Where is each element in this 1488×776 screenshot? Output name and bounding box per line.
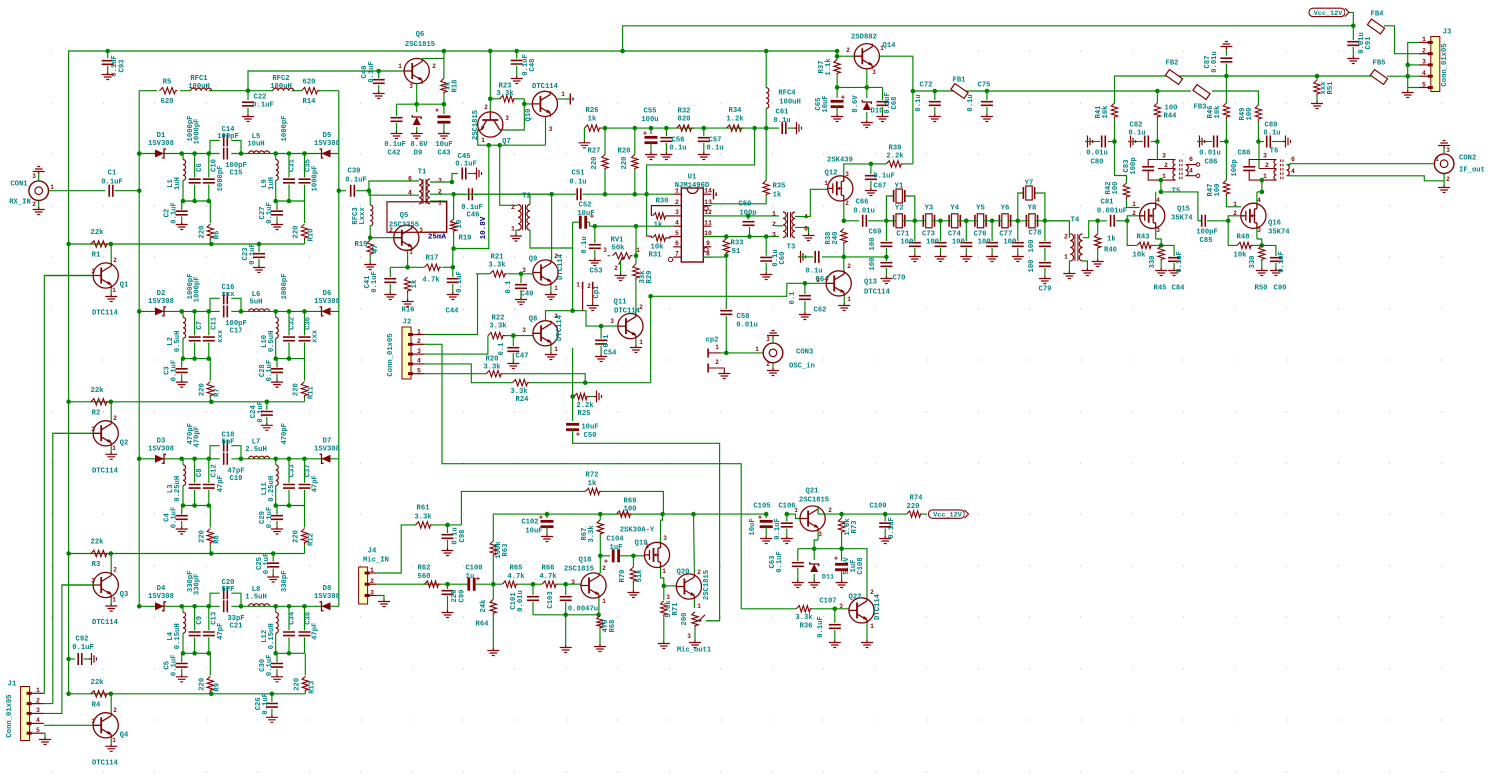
svg-text:1: 1 xyxy=(880,45,884,52)
svg-text:DTC114: DTC114 xyxy=(614,308,641,316)
capacitor C22 xyxy=(247,91,249,100)
capacitor C76 xyxy=(991,221,993,241)
svg-text:R25: R25 xyxy=(578,410,591,418)
svg-text:FB1: FB1 xyxy=(953,77,967,85)
capacitor C85 xyxy=(1198,220,1202,222)
svg-text:3: 3 xyxy=(687,633,691,640)
svg-text:3: 3 xyxy=(370,589,374,596)
ground C4 xyxy=(176,527,188,535)
svg-text:xxx: xxx xyxy=(217,329,225,343)
svg-text:R43: R43 xyxy=(1137,234,1150,242)
wire Q5 emitter xyxy=(407,250,409,267)
svg-text:3: 3 xyxy=(409,83,413,90)
capacitor C75 xyxy=(986,91,988,100)
resistor R49 xyxy=(1255,105,1261,121)
svg-text:R66: R66 xyxy=(542,565,555,573)
svg-text:1: 1 xyxy=(36,687,40,694)
wire T1 pin2 row xyxy=(430,193,465,195)
svg-text:2.2k: 2.2k xyxy=(576,402,594,410)
resistor R26 xyxy=(583,128,585,140)
svg-text:+: + xyxy=(435,108,439,116)
svg-text:100: 100 xyxy=(1003,239,1016,247)
svg-text:100: 100 xyxy=(900,239,913,247)
svg-text:Q9: Q9 xyxy=(529,256,538,264)
wire collector Q3 xyxy=(110,554,112,573)
svg-text:0.1uF: 0.1uF xyxy=(171,202,179,224)
svg-text:Q8: Q8 xyxy=(529,316,538,324)
svg-text:220: 220 xyxy=(198,226,206,239)
ground C41 xyxy=(384,292,396,300)
capacitor C9 xyxy=(194,606,196,630)
svg-text:Q21: Q21 xyxy=(806,488,820,496)
wire IF row to FB3 xyxy=(1157,90,1191,92)
svg-text:1: 1 xyxy=(398,63,402,70)
ground J3 xyxy=(1407,88,1409,91)
bridge wires C14 xyxy=(210,140,220,153)
svg-text:DTC114: DTC114 xyxy=(532,83,559,91)
svg-text:R6: R6 xyxy=(213,231,221,240)
svg-text:3: 3 xyxy=(571,579,575,586)
pin2 CON3 bottom ground xyxy=(772,363,774,368)
svg-text:R29: R29 xyxy=(646,271,654,284)
svg-text:C46: C46 xyxy=(467,212,480,220)
svg-text:3: 3 xyxy=(845,171,849,178)
resistor R17 xyxy=(425,264,442,270)
wire C39 to T1 pin6 xyxy=(369,181,419,191)
svg-text:D9: D9 xyxy=(414,150,423,158)
svg-text:1: 1 xyxy=(662,568,666,575)
pin 3 CON1 xyxy=(38,174,40,181)
capacitor C35 xyxy=(304,154,306,178)
svg-text:1000pF: 1000pF xyxy=(187,116,195,142)
svg-text:C60: C60 xyxy=(779,252,787,265)
svg-text:R35: R35 xyxy=(773,183,786,191)
svg-text:1: 1 xyxy=(715,344,719,351)
ground C5 xyxy=(176,674,188,682)
svg-text:4: 4 xyxy=(417,358,421,365)
resistor R72 xyxy=(560,490,586,492)
series capacitor C21 xyxy=(224,600,228,612)
transistor Q9 xyxy=(533,260,558,285)
svg-text:330pF: 330pF xyxy=(187,571,195,593)
svg-text:0.1uF: 0.1uF xyxy=(776,551,784,573)
svg-text:C102: C102 xyxy=(521,519,538,527)
zener D9 xyxy=(416,104,418,112)
svg-text:+: + xyxy=(576,432,580,440)
svg-text:D10: D10 xyxy=(871,108,884,116)
wire filter node row D1 xyxy=(139,153,220,155)
svg-text:2: 2 xyxy=(587,283,591,290)
wire Q10 emitter xyxy=(545,117,547,146)
wire R61 out xyxy=(433,524,462,526)
jumper cp1 xyxy=(583,282,593,290)
svg-text:R4: R4 xyxy=(92,701,101,709)
resistor R28 xyxy=(634,128,636,155)
resistor R18 xyxy=(441,78,447,94)
svg-text:1000pF: 1000pF xyxy=(281,116,289,142)
svg-text:240: 240 xyxy=(832,232,840,245)
wire Q19 source xyxy=(660,568,662,579)
svg-text:+: + xyxy=(841,95,845,103)
wire T4 secondary bottom xyxy=(1083,261,1088,268)
svg-text:R8: R8 xyxy=(213,535,221,544)
svg-text:R31: R31 xyxy=(649,252,663,260)
wire base Q4 xyxy=(44,724,93,726)
transistor Q4 xyxy=(93,713,118,738)
svg-text:J2: J2 xyxy=(403,319,412,327)
pin 14 bar xyxy=(714,189,717,200)
svg-text:3: 3 xyxy=(91,578,95,585)
capacitor C26 xyxy=(271,694,273,702)
capacitor C4 xyxy=(181,506,183,515)
svg-text:100: 100 xyxy=(1112,182,1120,195)
capacitor C77 xyxy=(1017,221,1019,241)
T5 pin stubs xyxy=(1157,160,1175,181)
svg-text:C99: C99 xyxy=(459,590,467,603)
node junctions row D3 xyxy=(137,457,142,462)
transistor Q16 35K74 xyxy=(1241,203,1266,228)
svg-text:2: 2 xyxy=(32,201,36,208)
svg-text:1: 1 xyxy=(554,285,558,292)
capacitor C48 xyxy=(516,51,518,59)
svg-text:C71: C71 xyxy=(896,231,910,239)
svg-text:4: 4 xyxy=(675,220,679,227)
svg-text:220: 220 xyxy=(198,530,206,543)
resistor R66 xyxy=(542,581,558,587)
wire emitter Q1 xyxy=(110,288,112,294)
svg-text:C92: C92 xyxy=(76,636,89,644)
svg-text:3: 3 xyxy=(766,336,770,343)
capacitor C14 xyxy=(224,134,228,146)
wire T6 pin4 to CON2 ground side xyxy=(1287,176,1445,181)
svg-text:3: 3 xyxy=(772,231,776,238)
capacitor C16 xyxy=(224,292,228,304)
wire RV1 wiper ground xyxy=(620,262,622,273)
wire C39 row xyxy=(339,190,346,192)
ground C45 right xyxy=(474,168,482,180)
svg-text:0.5uH: 0.5uH xyxy=(174,331,182,353)
resistor R29 xyxy=(635,256,637,264)
svg-text:10uF: 10uF xyxy=(435,141,452,149)
capacitor C57 xyxy=(703,128,705,136)
svg-text:2.5uH: 2.5uH xyxy=(245,446,267,454)
resistor R11 xyxy=(304,359,306,381)
svg-text:C11: C11 xyxy=(211,316,219,330)
inductor L1 xyxy=(182,154,184,160)
wire pin8 to R33 xyxy=(703,256,726,258)
transformer T3 xyxy=(783,212,795,238)
wire C101 C103 bottom rail xyxy=(533,614,599,616)
wire base Q1 xyxy=(44,275,93,277)
wire J2 pin2 riser xyxy=(425,344,741,609)
resistor R39 xyxy=(871,163,887,165)
svg-text:R10: R10 xyxy=(308,229,316,242)
svg-text:R69: R69 xyxy=(624,498,637,506)
inductor L3 xyxy=(182,459,184,465)
wire Q15 gate2 xyxy=(1127,216,1139,221)
svg-text:1u: 1u xyxy=(466,573,475,581)
svg-text:1: 1 xyxy=(772,210,776,217)
svg-text:47pF: 47pF xyxy=(312,623,320,640)
svg-text:2: 2 xyxy=(870,589,874,596)
svg-text:2: 2 xyxy=(1446,176,1450,183)
crystal Y2 xyxy=(896,214,902,228)
resistor R34 xyxy=(727,125,744,131)
svg-text:C84: C84 xyxy=(1172,285,1186,293)
svg-text:C1: C1 xyxy=(108,170,117,178)
capacitor C109 xyxy=(884,514,886,521)
svg-text:22k: 22k xyxy=(91,679,105,687)
svg-text:2SD882: 2SD882 xyxy=(851,34,877,42)
capacitor C91 xyxy=(1352,26,1354,40)
svg-text:100u: 100u xyxy=(641,116,658,124)
capacitor C98 xyxy=(447,525,449,533)
wire collector Q1 xyxy=(110,244,112,263)
wire J2 pin1 to R21 xyxy=(425,274,478,335)
capacitor C23 xyxy=(258,244,260,252)
svg-text:0.25uH: 0.25uH xyxy=(174,476,182,502)
resistor R13 xyxy=(304,653,306,675)
resistor R69 xyxy=(600,513,616,515)
svg-text:1: 1 xyxy=(870,623,874,630)
svg-text:0.1uF: 0.1uF xyxy=(345,177,367,185)
svg-text:4.7k: 4.7k xyxy=(539,573,557,581)
capacitor C89 xyxy=(1256,139,1261,144)
wire R49 chain to T6 center tap xyxy=(1257,142,1260,169)
capacitor C29 xyxy=(276,506,278,515)
capacitor C8 xyxy=(194,459,196,483)
svg-text:C31: C31 xyxy=(289,158,297,172)
svg-text:2: 2 xyxy=(1265,162,1269,169)
ground Q4 xyxy=(105,744,117,752)
svg-text:3: 3 xyxy=(1263,152,1267,159)
wire Q7 emitter row xyxy=(478,130,546,145)
wire Q5 base xyxy=(370,237,394,239)
resistor R27 xyxy=(604,128,606,155)
svg-text:C32: C32 xyxy=(289,317,297,330)
svg-text:C22: C22 xyxy=(254,94,267,102)
wire cp2 to CON3 xyxy=(724,351,729,356)
resistor R73 xyxy=(841,514,843,518)
transistor Q14 2SD882 xyxy=(854,44,879,69)
svg-text:R17: R17 xyxy=(426,255,439,263)
svg-text:100: 100 xyxy=(1028,260,1036,273)
wire T1 pin1 to Q5 xyxy=(425,201,447,232)
zener D11 xyxy=(813,549,815,560)
svg-text:35K74: 35K74 xyxy=(1268,229,1290,237)
svg-text:100: 100 xyxy=(1214,184,1222,197)
capacitor C11 xyxy=(208,311,210,335)
svg-text:10: 10 xyxy=(704,230,712,237)
svg-text:1: 1 xyxy=(639,339,643,346)
svg-text:1: 1 xyxy=(370,567,374,574)
resistor R21 xyxy=(476,273,490,275)
wire R36 to Q22 base xyxy=(812,608,849,610)
svg-text:C47: C47 xyxy=(516,353,529,361)
svg-text:R34: R34 xyxy=(729,107,743,115)
pin 13 circle xyxy=(704,206,708,210)
svg-text:1.1k: 1.1k xyxy=(825,58,833,76)
transistor Q22 xyxy=(849,598,874,623)
svg-text:C75: C75 xyxy=(978,82,991,90)
wire J4 pin3 ground xyxy=(377,596,384,600)
ground C40 xyxy=(373,91,385,99)
svg-text:100p: 100p xyxy=(1130,157,1138,174)
svg-text:3: 3 xyxy=(1162,152,1166,159)
wire crystal link xyxy=(902,220,925,222)
wire Q6 emitter xyxy=(416,84,418,105)
wire R61 to R72 row xyxy=(461,491,560,525)
wire J2 pin5 to R20 xyxy=(425,373,486,375)
svg-text:1SV308: 1SV308 xyxy=(314,593,340,601)
pin3 CON3 top ground xyxy=(772,338,774,343)
transistor Q5 xyxy=(394,225,419,250)
wire R19 feed xyxy=(452,248,455,250)
svg-text:1: 1 xyxy=(481,137,485,144)
junction T2 Q9 node xyxy=(549,192,554,197)
svg-text:1: 1 xyxy=(794,507,798,514)
svg-text:51: 51 xyxy=(732,248,741,256)
svg-text:0.1u: 0.1u xyxy=(967,94,975,111)
capacitor C46 xyxy=(469,188,473,200)
potentiometer mic 200 xyxy=(692,612,698,628)
svg-text:T1: T1 xyxy=(418,169,427,177)
resistor R43 xyxy=(1137,242,1153,248)
wire Q13 emitter xyxy=(843,296,845,303)
resistor R30 pins 2-3 xyxy=(651,206,673,216)
svg-text:6: 6 xyxy=(1291,156,1295,163)
transistor Q15 35K74 xyxy=(1140,203,1165,228)
svg-text:2: 2 xyxy=(697,569,701,576)
svg-text:C105: C105 xyxy=(753,503,770,511)
svg-text:1: 1 xyxy=(824,180,828,187)
capacitor C108 xyxy=(841,549,843,561)
wire right vertical bus x=339 xyxy=(338,91,340,607)
resistor R14 xyxy=(302,88,320,94)
svg-text:3: 3 xyxy=(872,69,876,76)
svg-text:2: 2 xyxy=(113,257,117,264)
transformer T1 xyxy=(419,179,430,204)
junction C40 xyxy=(376,69,381,74)
wire Q8 collector to C52 node xyxy=(546,311,573,321)
wire rail left D4 xyxy=(182,652,211,654)
svg-text:C72: C72 xyxy=(920,82,933,90)
svg-text:5pF: 5pF xyxy=(222,438,235,446)
jumper cp2 xyxy=(707,349,709,373)
svg-text:2: 2 xyxy=(828,507,832,514)
wire J2 pin4 to R24 xyxy=(425,364,513,383)
svg-text:0.1u: 0.1u xyxy=(915,94,923,111)
svg-text:1: 1 xyxy=(438,199,442,206)
svg-text:3: 3 xyxy=(417,348,421,355)
zener D4 xyxy=(155,602,164,610)
wire crystal link xyxy=(958,220,977,222)
svg-text:0.1uF: 0.1uF xyxy=(384,141,406,149)
wire Q21 collector xyxy=(817,506,819,514)
wire pot wiper out xyxy=(706,620,720,622)
svg-text:2: 2 xyxy=(554,313,558,320)
svg-text:R70: R70 xyxy=(619,570,627,583)
wire FB3 to R49 xyxy=(1212,91,1258,105)
wire R20 join R24 xyxy=(503,374,585,383)
wire Q9 collector xyxy=(551,194,553,260)
transistor Q12 2SK439 xyxy=(828,176,853,201)
capacitor C66 xyxy=(863,215,867,227)
svg-text:100: 100 xyxy=(1165,105,1178,113)
wire emitter row to Q22 collector xyxy=(842,549,867,598)
transistor Q8 xyxy=(533,321,558,346)
svg-text:R1: R1 xyxy=(92,252,101,260)
svg-text:7: 7 xyxy=(675,250,679,257)
svg-text:2: 2 xyxy=(639,304,643,311)
capacitor C54 xyxy=(600,326,602,339)
ground above CON1 xyxy=(33,167,45,175)
capacitor C27 xyxy=(276,201,278,210)
inductor L2 xyxy=(182,311,184,317)
wire C87 top ground xyxy=(1220,42,1232,50)
ground Q2 xyxy=(105,452,117,460)
pin 9 circle xyxy=(704,248,708,252)
capacitor C40 xyxy=(378,71,380,78)
wire J1 pin1 riser xyxy=(44,276,93,694)
wire C46 to T2 junction xyxy=(474,193,552,195)
svg-text:R40: R40 xyxy=(1104,247,1117,255)
svg-text:2SC1815: 2SC1815 xyxy=(405,41,435,49)
transistor Q19 2SK30A xyxy=(644,542,669,567)
junction dots crystal row xyxy=(884,219,889,224)
wire C52 left vertical xyxy=(572,222,574,311)
bridge wires C16 xyxy=(210,298,220,311)
svg-text:R7: R7 xyxy=(213,388,221,397)
wire R48 branch xyxy=(1228,221,1237,246)
capacitor C56 xyxy=(665,128,667,136)
resistor R6 xyxy=(209,201,211,223)
svg-text:R5: R5 xyxy=(163,79,172,87)
svg-text:R39: R39 xyxy=(889,145,902,153)
capacitor C86 xyxy=(1224,139,1229,144)
capacitor C78 C79 stack xyxy=(1044,221,1046,241)
wire crystal filter main row xyxy=(886,220,896,222)
svg-text:1k: 1k xyxy=(588,480,597,488)
capacitor C69 C70 stack xyxy=(885,221,887,241)
svg-text:RFC1: RFC1 xyxy=(190,75,208,83)
svg-text:C107: C107 xyxy=(819,598,836,606)
svg-text:3: 3 xyxy=(816,277,820,284)
svg-text:CON3: CON3 xyxy=(796,349,813,357)
svg-text:2: 2 xyxy=(389,227,393,234)
svg-text:+: + xyxy=(539,515,543,523)
svg-text:2: 2 xyxy=(845,200,849,207)
wire pin1 row (C51 row) xyxy=(454,193,576,195)
svg-text:0.1uF: 0.1uF xyxy=(873,173,895,181)
svg-text:51k: 51k xyxy=(636,569,644,583)
svg-text:R20: R20 xyxy=(486,356,499,364)
svg-text:R68: R68 xyxy=(609,620,617,633)
svg-text:10: 10 xyxy=(456,220,464,229)
ground C24 xyxy=(261,423,273,431)
svg-text:1uF: 1uF xyxy=(610,544,623,552)
svg-text:R61: R61 xyxy=(417,505,431,513)
connector J2 xyxy=(402,327,411,379)
capacitor C32 xyxy=(288,311,290,335)
zener D6 xyxy=(322,307,331,315)
wire bias row R2 xyxy=(69,401,305,403)
wire mic signal row xyxy=(377,583,465,585)
svg-text:1SV308: 1SV308 xyxy=(148,593,174,601)
svg-text:C66: C66 xyxy=(856,199,869,207)
wire emitter Q4 xyxy=(110,738,112,744)
svg-text:R63: R63 xyxy=(502,544,510,557)
